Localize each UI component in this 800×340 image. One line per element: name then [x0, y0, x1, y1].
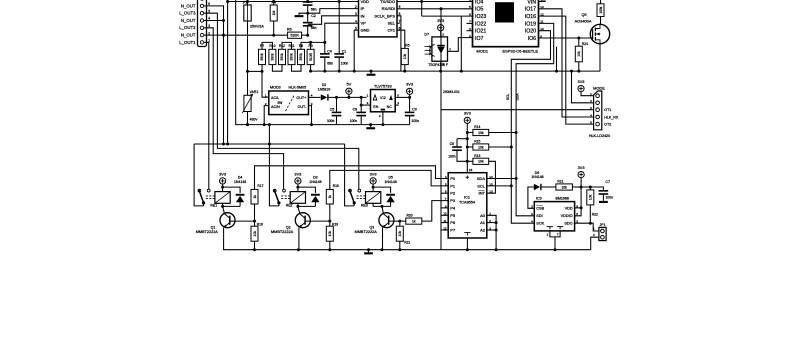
svg-text:SCLK_BPS: SCLK_BPS	[374, 13, 395, 18]
wire pin6 N_OUT	[204, 6, 224, 21]
svg-text:3V3: 3V3	[370, 171, 377, 176]
wire IP to C2 top node	[308, 9, 359, 14]
svg-text:10k: 10k	[589, 194, 593, 200]
svg-text:AC/L: AC/L	[271, 96, 279, 100]
svg-text:IO19: IO19	[525, 21, 536, 27]
relay RE2 mech link	[281, 195, 291, 197]
svg-text:HLK_RX: HLK_RX	[604, 116, 619, 120]
wire Q3 base	[389, 220, 406, 222]
relay RE1 contact	[194, 144, 204, 206]
wire SDO to JP1	[575, 223, 599, 231]
wire RE3 coil to Q3	[372, 203, 374, 206]
wire OUT- to rail	[309, 106, 312, 125]
wire TSOP GND	[440, 61, 442, 71]
svg-text:100n: 100n	[341, 61, 349, 65]
svg-text:1N4148: 1N4148	[531, 175, 543, 179]
stub P7	[441, 229, 448, 231]
svg-text:SDI: SDI	[536, 214, 542, 218]
svg-text:CF1: CF1	[387, 28, 395, 33]
svg-text:IN: IN	[361, 13, 365, 18]
svg-text:R17: R17	[257, 184, 263, 188]
svg-text:F1: F1	[243, 0, 247, 4]
wire RE1 coil to Q1	[222, 203, 224, 206]
svg-text:RE2: RE2	[286, 204, 293, 208]
stub NC	[395, 104, 399, 106]
3V3 power for radar	[578, 86, 584, 92]
svg-text:R14: R14	[474, 125, 480, 129]
svg-text:390k: 390k	[290, 53, 294, 61]
svg-text:390k: 390k	[280, 53, 284, 61]
relay RE2 coil	[290, 192, 305, 204]
svg-text:P4: P4	[450, 205, 456, 210]
relay RE3 contact	[345, 144, 355, 206]
wire IO23 to ground rail	[421, 2, 423, 17]
svg-text:2: 2	[355, 5, 357, 9]
relay RE2 contact	[273, 189, 276, 192]
resistor R4	[273, 2, 275, 6]
svg-text:R18: R18	[333, 184, 339, 188]
svg-text:290M3-001: 290M3-001	[443, 90, 460, 94]
wire to ground rail near ESP	[556, 47, 558, 71]
svg-text:3V3: 3V3	[578, 79, 585, 84]
svg-text:A0: A0	[480, 213, 486, 218]
wire L_OUT2 to RE2 contact	[204, 28, 284, 190]
wire A0 A1 A2 to ground	[487, 215, 496, 249]
divider top connections	[262, 42, 272, 49]
wire IO5 net vertical	[440, 9, 442, 250]
svg-text:390k: 390k	[271, 53, 275, 61]
wire R13 to INT	[487, 161, 496, 193]
stub P2	[441, 192, 448, 194]
wire GND pin to ground rail	[354, 30, 358, 71]
wire TX to ESP IO4	[397, 1, 473, 3]
BM1688 gnd pins	[547, 226, 553, 228]
connector X1	[198, 0, 207, 47]
wire 3V3 branch to C7 R22	[581, 187, 603, 190]
svg-text:C9: C9	[412, 107, 417, 111]
wire Q2 emitter	[298, 228, 300, 250]
svg-text:R6: R6	[287, 27, 292, 31]
svg-text:P6: P6	[450, 220, 456, 225]
3V3 power for RE1	[220, 178, 226, 184]
svg-text:VDD: VDD	[565, 207, 573, 211]
svg-text:N_OUT: N_OUT	[181, 3, 196, 8]
svg-text:AO3400A: AO3400A	[575, 18, 592, 23]
svg-text:C1: C1	[342, 49, 347, 53]
wire pin4 N_OUT	[204, 20, 224, 22]
svg-text:68n: 68n	[311, 26, 317, 30]
svg-text:IP: IP	[361, 6, 365, 11]
wire SCL pin	[487, 185, 512, 187]
svg-text:R13: R13	[474, 154, 480, 158]
svg-text:IO6: IO6	[528, 36, 536, 42]
wire IO20 SCL bus	[511, 31, 550, 224]
wire 5V node	[329, 96, 367, 98]
wire VIN up	[539, 0, 546, 2]
svg-text:IO17: IO17	[525, 7, 536, 13]
3V3 power for IR receiver	[438, 25, 444, 31]
capacitor chain C2 upper 68n	[303, 1, 313, 3]
svg-text:Q2: Q2	[286, 226, 291, 230]
ground symbol on rail	[370, 71, 372, 74]
svg-text:C5: C5	[330, 107, 335, 111]
svg-text:SDA: SDA	[516, 93, 520, 101]
relay common feed line	[194, 143, 345, 145]
svg-text:IO5: IO5	[475, 7, 483, 13]
resistor R21 10k	[542, 186, 556, 188]
3V3 power at regulator	[407, 88, 413, 94]
svg-text:R4: R4	[272, 0, 277, 4]
capacitor C6 100n	[457, 138, 467, 140]
stub IO21	[467, 30, 473, 32]
svg-text:510R: 510R	[309, 52, 313, 61]
svg-text:68n: 68n	[327, 61, 333, 65]
IC BL0942 energy meter U2	[359, 0, 398, 37]
svg-text:1k: 1k	[328, 195, 332, 199]
wire AC/N	[264, 106, 269, 125]
svg-text:SCK: SCK	[536, 222, 544, 226]
3V3 power for RE2	[295, 178, 301, 184]
stub SEL	[397, 22, 400, 24]
svg-text:10k: 10k	[398, 231, 402, 237]
svg-text:VAR1: VAR1	[250, 90, 259, 94]
wire N to relay common line	[223, 35, 225, 144]
wire from top to AC rail	[236, 0, 410, 125]
svg-text:R20: R20	[407, 213, 413, 217]
svg-text:OUT+: OUT+	[296, 96, 306, 100]
svg-text:MMBT2222A: MMBT2222A	[196, 230, 219, 234]
svg-text:390k: 390k	[260, 53, 264, 61]
svg-text:R24: R24	[582, 42, 588, 46]
svg-text:SCL: SCL	[477, 183, 486, 188]
svg-text:MOD1: MOD1	[477, 48, 489, 53]
wire IO17 to MODE pin4	[539, 9, 594, 117]
svg-text:C8: C8	[353, 107, 358, 111]
svg-text:IO16: IO16	[525, 14, 536, 20]
svg-text:IO4: IO4	[475, 0, 483, 5]
ground symbol bottom rail	[368, 250, 370, 253]
svg-text:IO20: IO20	[525, 29, 536, 35]
wire IO16 to MODE pin5	[539, 16, 594, 124]
wire RE2 coil to Q2	[297, 203, 299, 206]
capacitor C1 100n	[338, 2, 340, 51]
svg-text:NC: NC	[387, 105, 393, 109]
wire TCA GND	[466, 238, 468, 250]
svg-text:SDO: SDO	[564, 222, 572, 226]
svg-text:5: 5	[355, 27, 357, 31]
wire AC/L	[262, 71, 269, 97]
wire R20 to P3	[422, 201, 448, 222]
svg-text:IO22: IO22	[475, 21, 486, 27]
ground at C2 midpoint	[299, 13, 308, 15]
wire CF1 to R5	[397, 30, 405, 48]
svg-text:AC/N: AC/N	[271, 105, 280, 109]
svg-text:10k: 10k	[403, 53, 407, 59]
wire Q2 base	[305, 220, 330, 222]
svg-text:VP: VP	[361, 21, 367, 26]
svg-text:L_OUT3: L_OUT3	[179, 11, 196, 16]
svg-text:10k: 10k	[478, 131, 484, 135]
svg-text:RX/SDI: RX/SDI	[382, 6, 395, 11]
svg-text:3V3: 3V3	[406, 82, 413, 87]
ground rail	[311, 70, 600, 72]
wire Q1 base	[230, 220, 255, 222]
svg-text:430V: 430V	[250, 118, 259, 122]
svg-text:Q5: Q5	[581, 12, 586, 17]
wire from top to relay common line	[227, 0, 229, 144]
svg-text:SDA: SDA	[477, 176, 486, 181]
relay RE3 mech link	[357, 195, 367, 197]
svg-text:1M: 1M	[272, 10, 276, 15]
wire SCLK down	[397, 16, 401, 71]
svg-text:1N4148: 1N4148	[234, 180, 246, 184]
ground under C7	[599, 201, 608, 203]
svg-text:OT1: OT1	[604, 108, 611, 112]
svg-text:HLK-LD2420: HLK-LD2420	[589, 134, 610, 138]
svg-text:3V3: 3V3	[578, 165, 585, 170]
transistor Q3 MMBT2222A	[379, 213, 394, 228]
wire L_OUT1 to RE1 contact	[204, 42, 209, 189]
svg-text:R21: R21	[557, 180, 563, 184]
svg-text:R5: R5	[405, 43, 409, 47]
wire Q5 source to ground rail	[599, 44, 601, 72]
svg-text:100n: 100n	[327, 119, 335, 123]
wire VP to divider tap	[325, 23, 359, 42]
svg-text:1N4148: 1N4148	[309, 180, 321, 184]
wire IC2 GND	[382, 112, 384, 125]
svg-text:1N4148: 1N4148	[384, 180, 396, 184]
svg-text:IC3: IC3	[536, 197, 542, 201]
3V3 power for RE3	[370, 178, 376, 184]
IC1 TCA9554 io expander	[448, 173, 487, 238]
svg-text:D7: D7	[424, 33, 429, 37]
wire L node segment	[248, 70, 263, 72]
stub IO22	[467, 22, 473, 24]
wire SDA pin	[487, 178, 516, 180]
ground symbol on DC rail	[370, 125, 372, 128]
svg-text:C6: C6	[450, 142, 455, 146]
svg-text:MOD3: MOD3	[270, 86, 281, 90]
svg-text:HLK-5M05: HLK-5M05	[289, 86, 307, 90]
svg-text:MMBT2222A: MMBT2222A	[271, 230, 294, 234]
svg-text:3V3: 3V3	[219, 171, 226, 176]
svg-text:1k: 1k	[412, 219, 416, 223]
svg-text:IC2: IC2	[380, 96, 386, 100]
svg-text:A1: A1	[480, 220, 486, 225]
transistor Q1 MMBT2222A	[220, 213, 235, 228]
wire IC2 out 3V3	[395, 96, 409, 98]
svg-text:VDDIO: VDDIO	[561, 214, 573, 218]
5V power symbol	[346, 88, 352, 94]
relay RE1 mech link	[206, 195, 216, 197]
svg-text:10k: 10k	[328, 231, 332, 237]
wire Q3 emitter	[382, 228, 384, 250]
svg-text:100k: 100k	[599, 6, 603, 13]
net top VDD line	[228, 1, 359, 3]
svg-text:16: 16	[469, 168, 473, 172]
svg-text:10k: 10k	[577, 51, 581, 57]
svg-text:3V3: 3V3	[464, 111, 471, 116]
svg-text:ESP32-C6-BEETLE: ESP32-C6-BEETLE	[503, 48, 539, 53]
svg-text:1k: 1k	[253, 195, 257, 199]
bottom ground rail	[223, 249, 591, 251]
wire to MODE pin3	[441, 109, 594, 111]
divider bottom connections	[261, 65, 263, 72]
svg-text:250V/2A: 250V/2A	[250, 25, 264, 29]
wire MODE gnd	[572, 71, 594, 103]
relay RE3 coil	[366, 192, 381, 204]
svg-text:VDD: VDD	[361, 0, 370, 4]
svg-text:TSOP4136 F: TSOP4136 F	[428, 63, 448, 67]
resistor R21 pulldown	[399, 221, 401, 226]
wire F1 to varistor node	[247, 21, 249, 95]
svg-text:Q3: Q3	[370, 226, 375, 230]
svg-text:INT: INT	[479, 191, 486, 196]
wire EN to C8 node	[361, 104, 370, 106]
svg-text:L_OUT1: L_OUT1	[179, 40, 196, 45]
wire RX to ESP IO5	[397, 8, 473, 10]
svg-text:1N5819: 1N5819	[318, 87, 331, 91]
svg-text:TCA9554: TCA9554	[459, 201, 475, 205]
svg-text:R22: R22	[592, 213, 598, 217]
svg-text:P1: P1	[450, 183, 456, 188]
wire P1 to R18	[330, 170, 448, 189]
svg-text:68n: 68n	[311, 8, 317, 12]
wire IO6 to Q5 gate	[539, 37, 592, 39]
svg-text:100n: 100n	[448, 154, 456, 158]
svg-text:IO7: IO7	[475, 36, 483, 42]
svg-text:BM1688: BM1688	[556, 197, 569, 201]
svg-text:N_OUT: N_OUT	[181, 33, 196, 38]
svg-text:VIN: VIN	[527, 0, 536, 5]
svg-text:SCL: SCL	[506, 94, 510, 101]
svg-text:10k: 10k	[478, 145, 484, 149]
svg-text:A2: A2	[480, 228, 486, 233]
svg-text:390k: 390k	[299, 53, 303, 61]
svg-text:N_OUT: N_OUT	[181, 18, 196, 23]
svg-text:L_OUT2: L_OUT2	[179, 25, 196, 30]
svg-text:P0: P0	[450, 176, 456, 181]
svg-text:SEL: SEL	[387, 21, 395, 26]
svg-text:C7: C7	[605, 180, 610, 184]
3V3 power for sensor	[578, 172, 584, 178]
svg-text:GND: GND	[361, 28, 370, 33]
svg-text:Q1: Q1	[211, 226, 216, 230]
wire L_OUT3 to RE3 contact	[204, 13, 359, 189]
svg-text:IC1: IC1	[464, 196, 470, 200]
stub P6	[441, 222, 448, 224]
svg-text:P2: P2	[450, 191, 456, 196]
svg-text:C2: C2	[311, 14, 316, 18]
module MOD1 ESP32-C6-BEETLE	[473, 0, 539, 47]
svg-text:10k: 10k	[478, 160, 484, 164]
svg-text:TLV75733: TLV75733	[374, 84, 392, 89]
svg-text:RE3: RE3	[361, 204, 368, 208]
wire P0 to R17	[255, 166, 449, 190]
svg-text:3: 3	[355, 12, 357, 16]
svg-text:CSB: CSB	[536, 207, 544, 211]
wire TSOP OUT to IO7	[448, 38, 473, 52]
svg-text:R21: R21	[404, 240, 410, 244]
svg-text:OT2: OT2	[604, 123, 611, 127]
svg-text:4: 4	[355, 20, 357, 24]
resistor R22	[589, 187, 591, 190]
svg-text:10k: 10k	[561, 185, 567, 189]
svg-text:13: 13	[489, 190, 493, 194]
wire N link to relay common	[268, 125, 270, 144]
svg-text:C4: C4	[327, 49, 332, 53]
svg-text:100n: 100n	[412, 119, 420, 123]
svg-text:100n: 100n	[350, 119, 358, 123]
svg-text:TX/SDO: TX/SDO	[380, 0, 395, 4]
svg-text:JP1: JP1	[599, 223, 605, 227]
svg-text:RE1: RE1	[210, 204, 217, 208]
svg-text:3V3: 3V3	[294, 171, 301, 176]
svg-text:5W: 5W	[278, 101, 283, 105]
stub P5	[441, 214, 448, 216]
svg-text:MODE: MODE	[593, 85, 605, 90]
wire IN to C2 bottom node	[308, 16, 359, 24]
svg-text:MMBT2222A: MMBT2222A	[355, 230, 378, 234]
svg-text:OUT-: OUT-	[297, 105, 307, 109]
svg-text:R15: R15	[474, 139, 480, 143]
wire IO19 SDA bus	[516, 23, 554, 215]
svg-text:P3: P3	[450, 198, 456, 203]
svg-text:5V: 5V	[347, 82, 352, 87]
svg-text:P5: P5	[450, 213, 456, 218]
AC rail junction dots	[246, 123, 249, 126]
wire JP1 pin2 ground	[591, 237, 599, 250]
transistor Q2 MMBT2222A	[295, 213, 310, 228]
fuse F1	[247, 2, 249, 6]
svg-text:10k: 10k	[253, 231, 257, 237]
svg-text:510R: 510R	[291, 34, 300, 38]
stub P4	[441, 207, 448, 209]
svg-text:IO23: IO23	[475, 14, 486, 20]
resistor R23 100k	[597, 4, 604, 17]
resistor R24 gate pulldown	[578, 38, 580, 46]
svg-text:P7: P7	[450, 228, 456, 233]
3V3 power for TCA9554	[464, 117, 470, 123]
wire VDD VDDIO 3V3	[575, 207, 582, 209]
svg-text:100n: 100n	[606, 196, 614, 200]
wire Q1 emitter	[223, 228, 225, 250]
relay RE1 coil	[215, 192, 230, 204]
svg-text:EN: EN	[373, 105, 378, 109]
svg-text:IO21: IO21	[475, 29, 486, 35]
wire pin2 N_OUT to R6 line	[204, 34, 224, 36]
